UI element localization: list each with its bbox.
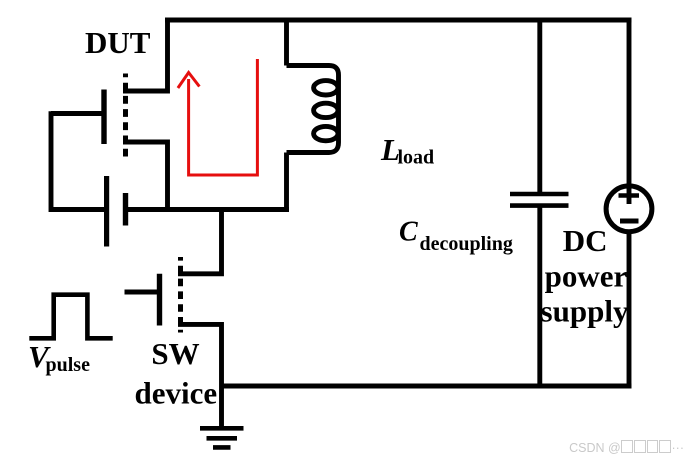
transistor DUT channel (dashed) (123, 74, 128, 159)
watermark (569, 440, 684, 455)
svg-text:pulse: pulse (46, 354, 91, 376)
inductor L_load (287, 66, 339, 153)
svg-text:DUT: DUT (85, 25, 151, 60)
wire: gate loop down left side (51, 111, 104, 209)
wire: inductor bottom to switch node (284, 153, 289, 210)
svg-text:C: C (399, 217, 418, 248)
transistor SW channel (dashed) (178, 257, 183, 333)
transistor SW gate bar (157, 274, 162, 326)
transistor DUT gate bar (101, 90, 106, 145)
ground symbol (200, 428, 244, 447)
wire: top rail (165, 18, 632, 23)
wire: DC source bottom lead (627, 232, 632, 389)
wire: SW gate lead (125, 290, 158, 295)
svg-text:decoupling: decoupling (420, 233, 513, 255)
red current loop (178, 59, 258, 175)
red arrowhead (178, 73, 200, 89)
DC power supply circle (606, 186, 652, 232)
svg-text:load: load (398, 147, 435, 169)
wire: cap bottom lead (537, 206, 542, 389)
svg-text:SW: SW (151, 336, 199, 371)
DC source plus sign (619, 193, 640, 198)
wire: bottom rail (222, 384, 632, 389)
svg-text:DC: DC (563, 223, 608, 258)
wire: DUT drain riser (123, 20, 168, 91)
svg-text:supply: supply (541, 294, 629, 329)
wire: switch node down to SW drain (178, 207, 222, 274)
gate-source element: short bar (123, 193, 128, 226)
wire: switch node (mid horizontal) (128, 207, 289, 212)
DC source minus sign (620, 219, 639, 224)
V_pulse waveform symbol (29, 295, 112, 339)
wire: cap top lead (537, 20, 542, 194)
capacitor C_decoupling plates (510, 194, 569, 206)
wire: DC source top lead (627, 20, 632, 204)
wire: DUT source contact and drop (123, 142, 168, 210)
wire: top rail to inductor (284, 18, 289, 66)
svg-text:power: power (545, 259, 628, 294)
gate-source element: long bar (104, 176, 109, 247)
wire: SW source contact and drop to ground (178, 324, 222, 428)
wire: DUT gate lead (51, 111, 104, 116)
svg-text:device: device (134, 376, 217, 411)
